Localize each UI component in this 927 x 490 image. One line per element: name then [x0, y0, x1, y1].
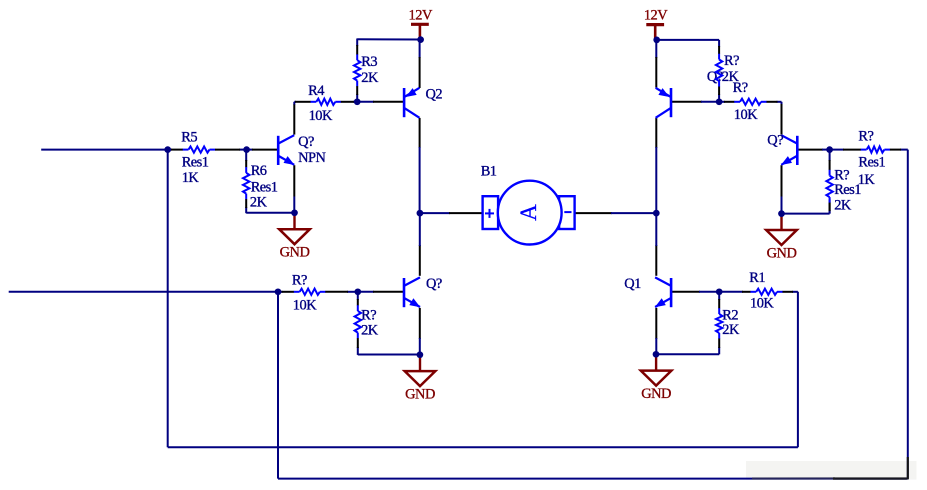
svg-text:10K: 10K: [734, 107, 758, 123]
svg-text:GND: GND: [280, 245, 310, 261]
resistor R? Res1 1K right: [830, 129, 908, 188]
svg-text:R?: R?: [292, 273, 307, 289]
junction node A1: [164, 146, 171, 153]
wire R2 bottom: [656, 353, 719, 355]
wire Q1 emitter: [655, 308, 657, 354]
wire right 2K bottom: [782, 213, 830, 215]
junction node GND left-up: [291, 209, 298, 216]
svg-text:B1: B1: [481, 164, 497, 180]
svg-text:12V: 12V: [644, 8, 668, 24]
wire Q? NPN lower-left emitter: [419, 308, 421, 355]
svg-text:10K: 10K: [309, 108, 333, 124]
svg-text:R6: R6: [251, 163, 267, 179]
svg-text:Q?: Q?: [767, 133, 783, 149]
wire Q? NPN lower-left collector: [419, 213, 421, 276]
junction node A3: [275, 288, 282, 295]
wire feedback 2 right vertical: [907, 150, 909, 479]
junction node 12V right: [653, 37, 660, 44]
wire Q2 collector: [419, 118, 421, 213]
wire Q? NPN right emitter: [781, 165, 783, 213]
junction node B3: [716, 98, 723, 105]
wire input 2 feedback vertical: [277, 292, 279, 479]
wire motor left: [420, 212, 483, 214]
resistor R? 10K lower-left: [278, 273, 358, 314]
svg-text:10K: 10K: [293, 297, 317, 313]
transistor Q? PNP right: [656, 69, 723, 118]
wire PNP right emitter: [655, 40, 657, 88]
junction node 12V left: [417, 36, 424, 43]
ground GND4: [766, 216, 797, 261]
svg-text:R?: R?: [361, 307, 376, 323]
wire Q? NPN upper-left emitter: [293, 165, 295, 213]
junction node B4: [716, 288, 723, 295]
ground GND3: [641, 356, 672, 402]
wire top rail right: [657, 39, 719, 41]
junction node B1t: [354, 98, 361, 105]
resistor R? Res1 2K right: [826, 150, 861, 214]
svg-text:GND: GND: [641, 386, 671, 402]
resistor R1 10K: [719, 270, 798, 312]
wire Q1 collector: [655, 213, 657, 276]
wire base pin Q? NPN right: [798, 149, 830, 151]
wire right Res1 2K lower pin: [829, 199, 831, 213]
svg-text:1K: 1K: [182, 170, 200, 186]
svg-text:1K: 1K: [858, 172, 876, 188]
transistor Q? NPN lower-left: [404, 276, 442, 307]
transistor Q1 NPN: [624, 276, 671, 307]
wire base pin Q? NPN lower-left: [358, 291, 403, 293]
svg-text:2K: 2K: [722, 322, 740, 338]
junction node GND left-low: [417, 351, 424, 358]
svg-text:Res1: Res1: [182, 155, 209, 171]
wire top rail left: [357, 38, 420, 40]
svg-text:R?: R?: [724, 53, 739, 69]
wire Q1 base pin: [672, 291, 719, 293]
transistor Q? NPN right: [767, 133, 797, 166]
junction node motor right: [653, 210, 660, 217]
junction node GND right-up: [778, 210, 785, 217]
svg-text:NPN: NPN: [298, 150, 326, 166]
wire motor right: [575, 212, 657, 214]
power 12V supply 2: [644, 8, 668, 39]
resistor R? 2K right-top: [716, 40, 740, 102]
resistor R4 10K: [294, 83, 357, 124]
wire input 1: [41, 149, 168, 151]
svg-text:R3: R3: [361, 54, 377, 70]
ground GND1: [279, 215, 310, 261]
ammeter B1: [481, 164, 575, 245]
wire R6 bottom to GND node: [246, 212, 294, 214]
wire base pin Q? NPN upper-left: [252, 149, 278, 151]
svg-text:A: A: [516, 204, 541, 221]
junction node B2: [354, 288, 361, 295]
resistor R2 2K: [716, 292, 740, 355]
wire PNP right base pin: [672, 101, 719, 103]
svg-text:Res1: Res1: [251, 179, 278, 195]
resistor R? 2K lower-left: [355, 292, 379, 355]
svg-text:R?: R?: [733, 80, 748, 96]
resistor R5 Res1 1K: [168, 130, 247, 186]
svg-text:10K: 10K: [750, 296, 774, 312]
svg-text:2K: 2K: [834, 197, 852, 213]
wire feedback 1 right vertical: [797, 292, 799, 447]
svg-text:Res1: Res1: [858, 155, 885, 171]
svg-text:GND: GND: [405, 386, 435, 402]
svg-text:R5: R5: [181, 130, 197, 146]
resistor R3 2K: [354, 39, 379, 102]
transistor Q? NPN upper-left: [278, 134, 326, 166]
resistor R? 10K right: [719, 80, 781, 123]
ground GND2: [405, 357, 436, 403]
wire R5-R6 node to Q base: [247, 149, 253, 151]
junction node motor left: [417, 210, 424, 217]
wire 10K right to NPN collector: [781, 102, 783, 135]
svg-text:Q?: Q?: [298, 134, 314, 150]
wire Q? NPN upper-left collector: [293, 102, 295, 135]
power 12V supply 1: [409, 7, 433, 38]
svg-text:R4: R4: [308, 83, 324, 99]
svg-text:2K: 2K: [250, 195, 268, 211]
wire input 2: [9, 291, 278, 293]
svg-text:2K: 2K: [361, 322, 379, 338]
wire feedback 2 bottom: [278, 478, 908, 480]
transistor Q2 PNP: [404, 87, 442, 118]
wire Q2 base pin: [357, 101, 403, 103]
wire Q2 emitter: [419, 40, 421, 88]
resistor R6 Res1 2K: [243, 150, 278, 214]
svg-text:R?: R?: [858, 129, 873, 145]
junction node GND right-low: [653, 351, 660, 358]
svg-text:12V: 12V: [409, 7, 433, 23]
svg-text:Q1: Q1: [624, 276, 641, 292]
svg-text:Q?: Q?: [426, 276, 442, 292]
svg-text:2K: 2K: [361, 70, 379, 86]
svg-text:Q2: Q2: [426, 87, 443, 103]
junction node A2: [243, 146, 250, 153]
svg-text:GND: GND: [767, 245, 797, 261]
svg-text:R1: R1: [749, 270, 765, 286]
wire input 1 feedback vertical: [167, 150, 169, 448]
junction node A4: [826, 146, 833, 153]
wire lower-left 2K bottom: [358, 354, 420, 356]
watermark smudge: [752, 457, 908, 479]
wire feedback 1 bottom: [168, 446, 798, 448]
wire PNP right collector: [655, 118, 657, 213]
